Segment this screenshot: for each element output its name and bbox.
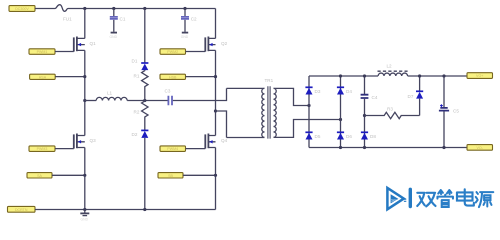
diode D5 — [305, 132, 320, 139]
svg-text:VO+: VO+ — [476, 74, 483, 78]
svg-text:D2: D2 — [132, 132, 138, 137]
wire rectifier top rail — [309, 75, 378, 77]
svg-text:PWM2: PWM2 — [167, 50, 178, 54]
capacitor C3 — [165, 89, 173, 106]
svg-text:D7: D7 — [408, 94, 414, 99]
node R3 left junction — [363, 114, 366, 117]
wire snubber column — [364, 76, 366, 148]
diode D1 — [132, 9, 149, 71]
svg-text:HSB: HSB — [169, 75, 177, 79]
diode D4 — [337, 87, 352, 94]
ground below C1 — [111, 32, 117, 34]
wire secondary top to bridge — [274, 88, 310, 105]
svg-text:C2: C2 — [191, 17, 197, 22]
port VOUT- — [467, 145, 493, 151]
capacitor C5 — [439, 76, 459, 148]
node C5 top — [442, 74, 445, 77]
node bottom mid junction — [143, 208, 146, 211]
ground below C2 — [182, 32, 188, 34]
node col3 top — [363, 74, 366, 77]
node col3 bottom — [363, 146, 366, 149]
wire bridge column 1 — [308, 76, 310, 148]
wire gate Q2 — [186, 51, 206, 53]
svg-text:FU1: FU1 — [63, 16, 72, 21]
svg-text:PWM3: PWM3 — [37, 147, 48, 151]
wire right leg top — [215, 9, 217, 39]
port G4 — [160, 146, 186, 152]
svg-text:D1: D1 — [132, 59, 138, 64]
svg-text:SB: SB — [168, 174, 173, 178]
svg-text:Q1: Q1 — [90, 41, 97, 46]
logo text 双 — [417, 193, 435, 207]
resistor R1 — [134, 70, 149, 100]
wire SW2 to leg — [186, 76, 216, 78]
fuse FU1 — [55, 5, 72, 22]
transistor Q1 — [74, 37, 96, 52]
diode D3 — [305, 87, 320, 94]
node col2 top — [339, 74, 342, 77]
svg-text:DCRTN: DCRTN — [15, 208, 28, 212]
port S1 — [27, 173, 52, 178]
wire gate Q4 — [186, 148, 206, 150]
wire S1 to leg — [52, 174, 85, 176]
svg-text:R3: R3 — [387, 107, 393, 112]
svg-text:PWM1: PWM1 — [37, 50, 48, 54]
wire top rail right — [408, 75, 467, 77]
svg-text:GND: GND — [81, 218, 89, 222]
logo icon triangle — [387, 188, 406, 209]
svg-text:VO-: VO- — [477, 146, 484, 150]
svg-text:SA: SA — [37, 174, 42, 178]
node R1 R2 L1 junction — [143, 99, 146, 102]
node bottom left junction — [83, 208, 86, 211]
capacitor C1 — [110, 7, 126, 32]
wire right leg Q2 source to Q4 drain — [215, 50, 217, 135]
svg-text:Q2: Q2 — [221, 41, 228, 46]
port SW2 — [160, 74, 186, 79]
ground GND1 — [80, 210, 89, 222]
port G3 — [29, 146, 55, 152]
port VOUT+ — [467, 73, 493, 79]
wire left leg Q1 source to Q3 drain — [84, 50, 86, 135]
svg-text:C4: C4 — [372, 95, 378, 100]
svg-text:D3: D3 — [315, 89, 321, 94]
svg-text:D8: D8 — [370, 134, 376, 139]
inductor L1 — [85, 91, 127, 101]
svg-text:R1: R1 — [134, 74, 140, 79]
logo text 源 — [476, 192, 494, 207]
svg-text:L1: L1 — [107, 91, 113, 96]
port SW1 — [30, 74, 56, 79]
svg-text:GND: GND — [181, 35, 189, 39]
diode D7 — [408, 76, 424, 116]
wire input to fuse — [35, 8, 55, 10]
port S2 — [158, 173, 183, 178]
port G1 — [29, 49, 55, 55]
node C5 bottom — [442, 146, 445, 149]
svg-text:C3: C3 — [165, 89, 171, 94]
node primary bottom junction — [214, 109, 217, 112]
logo text 管 — [437, 190, 453, 207]
svg-text:SG: SG — [391, 197, 397, 202]
svg-text:Q3: Q3 — [90, 138, 97, 143]
svg-text:DC300V: DC300V — [15, 7, 29, 11]
transformer secondary winding — [274, 88, 277, 137]
node left bridge midpoint — [83, 99, 86, 102]
svg-text:R2: R2 — [134, 110, 140, 115]
port B- bottom left — [8, 206, 36, 212]
wire right leg to primary bottom — [216, 111, 227, 138]
node D7 top junction — [418, 74, 421, 77]
wire C3 to primary top jog — [173, 88, 227, 100]
resistor R3 — [365, 107, 420, 119]
svg-text:D4: D4 — [346, 89, 352, 94]
wire rectifier bottom rail — [309, 147, 467, 149]
wire bridge column 2 — [340, 76, 342, 148]
wire gate Q3 — [55, 148, 74, 150]
inductor L2 — [378, 64, 408, 77]
transformer TR1 primary winding — [227, 78, 274, 138]
wire bottom rail — [35, 209, 216, 211]
svg-text:PWM4: PWM4 — [167, 147, 178, 151]
wire S2 to leg — [183, 174, 216, 176]
svg-text:HSA: HSA — [39, 75, 47, 79]
wire gate Q1 — [55, 51, 74, 53]
svg-text:GND: GND — [110, 35, 118, 39]
node SW1 junction — [83, 75, 86, 78]
svg-text:L2: L2 — [387, 64, 393, 69]
node S2 junction — [214, 174, 217, 177]
capacitor C2 — [181, 7, 197, 32]
wire left leg Q3 source down — [84, 148, 86, 210]
wire right leg Q4 source down — [215, 148, 217, 210]
resistor R2 — [134, 101, 149, 131]
transistor Q3 — [74, 134, 96, 149]
wire top rail — [68, 8, 216, 10]
node D1 branch top junction — [143, 7, 146, 10]
wire secondary bottom to bridge — [274, 120, 341, 138]
port P1 input — [9, 6, 35, 12]
svg-text:C5: C5 — [453, 109, 459, 114]
wire SW1 to leg — [55, 76, 85, 78]
node S1 junction — [83, 174, 86, 177]
port G2 — [160, 49, 186, 55]
diode D2 — [132, 130, 149, 209]
transistor Q4 — [205, 134, 227, 149]
diode D6 — [337, 132, 352, 139]
node SW2 junction — [214, 75, 217, 78]
node secondary top junction — [307, 104, 310, 107]
logo text 电 — [457, 189, 474, 205]
svg-text:D6: D6 — [346, 134, 352, 139]
logo icon bar — [409, 188, 412, 209]
wire L1 to node — [127, 100, 167, 102]
node col2 bottom — [339, 146, 342, 149]
node secondary bottom junction — [339, 118, 342, 121]
wire left leg drain Q1 — [84, 9, 86, 39]
svg-text:Q4: Q4 — [221, 138, 228, 143]
diode D8 — [361, 132, 376, 139]
capacitor C4 — [361, 95, 378, 100]
svg-text:D5: D5 — [315, 134, 321, 139]
transformer core — [268, 86, 270, 138]
transistor Q2 — [205, 37, 227, 52]
node top-left junction — [83, 7, 86, 10]
svg-text:C1: C1 — [120, 17, 126, 22]
svg-text:TR1: TR1 — [265, 78, 274, 83]
